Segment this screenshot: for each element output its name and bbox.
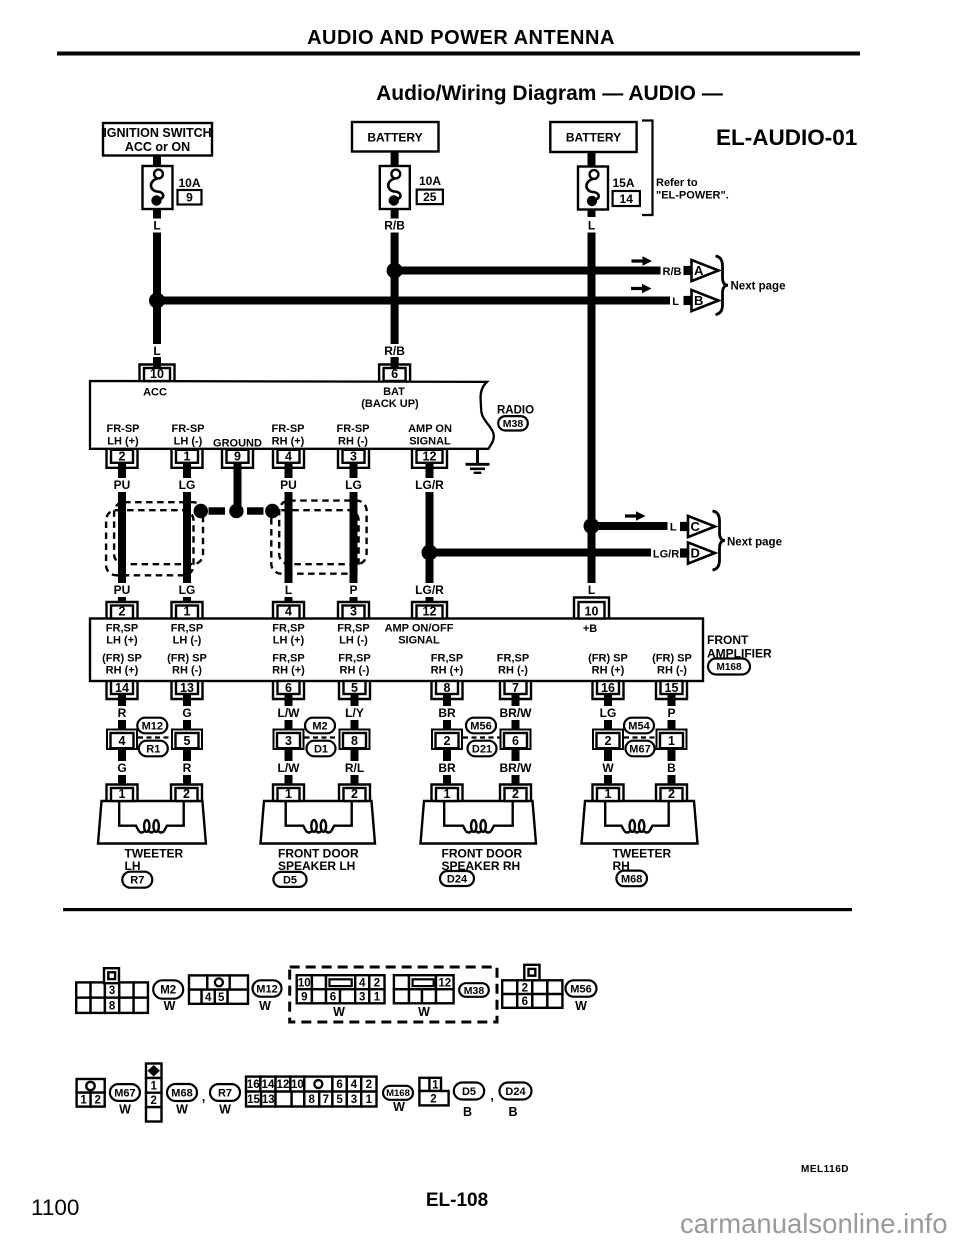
svg-text:SIGNAL: SIGNAL [409,435,451,447]
svg-text:15: 15 [665,681,679,695]
svg-text:LG/R: LG/R [415,478,444,492]
svg-text:B: B [463,1105,472,1119]
svg-text:PU: PU [114,583,131,597]
svg-text:M67: M67 [629,743,650,755]
svg-text:(BACK UP): (BACK UP) [361,398,419,410]
svg-text:R/B: R/B [384,219,405,233]
svg-text:8: 8 [309,1094,316,1106]
svg-text:D1: D1 [314,743,328,755]
svg-text:4: 4 [351,1079,358,1091]
svg-text:8: 8 [444,681,451,695]
svg-text:1: 1 [151,1080,158,1092]
svg-text:1: 1 [444,787,451,801]
svg-text:14: 14 [115,681,129,695]
svg-text:4: 4 [285,604,292,618]
svg-text:G: G [117,761,126,775]
svg-text:1: 1 [668,734,675,748]
svg-text:LG: LG [179,583,196,597]
svg-text:6: 6 [285,681,292,695]
svg-text:W: W [602,761,614,775]
svg-text:RH (+): RH (+) [592,665,625,677]
svg-text:LH (-): LH (-) [339,635,368,647]
svg-text:FRONT: FRONT [707,633,749,647]
svg-text:R: R [183,761,192,775]
svg-text:B: B [694,293,703,308]
svg-text:W: W [219,1103,231,1117]
svg-text:,: , [490,1088,494,1103]
svg-text:13: 13 [262,1094,275,1106]
svg-text:L: L [153,219,160,233]
svg-text:12: 12 [438,977,451,989]
svg-text:5: 5 [218,992,225,1004]
svg-text:G: G [182,706,191,720]
svg-text:2: 2 [151,1095,157,1107]
svg-text:4: 4 [119,734,126,748]
svg-text:BR: BR [438,761,456,775]
svg-text:FR,SP: FR,SP [272,653,304,665]
svg-text:15: 15 [247,1094,260,1106]
svg-text:M38: M38 [503,418,524,430]
svg-text:2: 2 [94,1095,100,1107]
svg-text:R/B: R/B [663,266,682,278]
svg-text:carmanualsonline.info: carmanualsonline.info [680,1208,948,1239]
svg-text:RH (-): RH (-) [657,665,687,677]
svg-text:A: A [694,263,704,278]
svg-text:PU: PU [114,478,131,492]
svg-text:1: 1 [285,787,292,801]
svg-text:2: 2 [668,787,675,801]
svg-text:BATTERY: BATTERY [566,131,621,145]
svg-text:2: 2 [119,604,126,618]
svg-text:W: W [119,1103,131,1117]
svg-text:14: 14 [620,192,634,206]
svg-text:L: L [672,296,679,308]
svg-text:6: 6 [391,367,398,381]
svg-text:M38: M38 [464,985,485,997]
svg-text:5: 5 [351,681,358,695]
svg-text:2: 2 [430,1094,436,1106]
svg-text:D21: D21 [472,743,492,755]
svg-text:AMP ON: AMP ON [408,423,452,435]
svg-text:16: 16 [601,681,615,695]
svg-text:D24: D24 [505,1086,526,1098]
svg-text:8: 8 [109,1000,116,1012]
svg-text:Audio/Wiring Diagram — AUDIO —: Audio/Wiring Diagram — AUDIO — [376,82,723,105]
svg-text:10: 10 [291,1079,304,1091]
svg-text:L/W: L/W [278,761,301,775]
svg-text:W: W [393,1100,405,1114]
svg-text:2: 2 [351,787,358,801]
svg-text:2: 2 [522,982,528,994]
svg-text:M2: M2 [312,720,327,732]
svg-text:10A: 10A [419,174,441,188]
svg-text:LG: LG [179,478,196,492]
svg-text:PU: PU [280,478,297,492]
svg-text:B: B [667,761,676,775]
svg-text:6: 6 [522,996,528,1008]
svg-text:AUDIO AND POWER ANTENNA: AUDIO AND POWER ANTENNA [307,27,615,49]
svg-text:3: 3 [350,450,357,464]
svg-text:R/L: R/L [345,761,364,775]
svg-text:M68: M68 [171,1087,192,1099]
svg-text:SIGNAL: SIGNAL [398,635,440,647]
svg-text:1: 1 [374,991,381,1003]
svg-text:RH (-): RH (-) [340,665,370,677]
svg-text:LG/R: LG/R [653,549,679,561]
svg-text:1: 1 [605,787,612,801]
svg-text:D: D [691,546,700,561]
svg-text:5: 5 [336,1094,343,1106]
svg-text:ACC: ACC [143,387,167,399]
svg-text:1: 1 [80,1095,87,1107]
svg-text:M56: M56 [570,983,591,995]
svg-text:(FR) SP: (FR) SP [652,653,692,665]
svg-text:1: 1 [119,787,126,801]
svg-text:FR,SP: FR,SP [272,623,304,635]
svg-text:+B: +B [583,623,597,635]
svg-text:BR/W: BR/W [500,706,533,720]
svg-text:1: 1 [366,1094,373,1106]
svg-text:IGNITION SWITCH: IGNITION SWITCH [103,126,211,140]
svg-text:M68: M68 [621,873,642,885]
svg-text:M12: M12 [256,983,277,995]
svg-text:D24: D24 [447,873,468,885]
svg-text:W: W [575,999,587,1013]
svg-text:Next page: Next page [727,537,782,549]
svg-text:RADIO: RADIO [497,405,534,417]
svg-text:BATTERY: BATTERY [367,131,422,145]
svg-text:R/B: R/B [384,344,405,358]
svg-text:25: 25 [423,190,437,204]
svg-text:10A: 10A [179,176,201,190]
svg-text:4: 4 [359,977,366,989]
svg-text:8: 8 [351,734,358,748]
svg-text:RH (+): RH (+) [431,665,464,677]
svg-text:RH (+): RH (+) [106,665,139,677]
svg-text:W: W [176,1103,188,1117]
svg-text:12: 12 [277,1079,290,1091]
svg-text:LH (+): LH (+) [107,435,139,447]
svg-text:W: W [418,1005,430,1019]
svg-text:RH (-): RH (-) [338,435,368,447]
svg-text:LH (-): LH (-) [173,635,202,647]
svg-text:Next page: Next page [731,281,786,293]
svg-text:M67: M67 [114,1087,135,1099]
svg-text:10: 10 [585,604,599,618]
svg-text:LH (-): LH (-) [174,435,203,447]
svg-text:R1: R1 [146,743,160,755]
svg-text:RH (+): RH (+) [272,435,305,447]
svg-text:LG: LG [345,478,362,492]
svg-text:P: P [667,706,675,720]
svg-text:7: 7 [323,1094,329,1106]
svg-text:FR,SP: FR,SP [497,653,529,665]
svg-text:FR,SP: FR,SP [338,653,370,665]
svg-text:FR-SP: FR-SP [172,423,205,435]
svg-text:12: 12 [423,450,437,464]
svg-text:M168: M168 [716,662,741,673]
svg-text:3: 3 [359,991,365,1003]
svg-text:R7: R7 [218,1087,232,1099]
svg-text:BR: BR [438,706,456,720]
svg-text:10: 10 [298,977,311,989]
svg-text:1: 1 [184,450,191,464]
svg-text:14: 14 [262,1079,275,1091]
svg-text:9: 9 [186,191,193,205]
svg-text:MEL116D: MEL116D [801,1164,849,1175]
svg-text:L: L [153,344,160,358]
svg-text:LG: LG [600,706,617,720]
svg-text:L: L [588,583,595,597]
svg-text:6: 6 [330,991,336,1003]
svg-text:BR/W: BR/W [500,761,533,775]
svg-text:2: 2 [366,1079,372,1091]
svg-text:R7: R7 [130,875,144,887]
svg-text:AMP ON/OFF: AMP ON/OFF [385,623,454,635]
svg-text:FR-SP: FR-SP [337,423,370,435]
svg-text:FR,SP: FR,SP [337,623,369,635]
svg-text:RH (-): RH (-) [172,665,202,677]
svg-text:4: 4 [205,992,212,1004]
svg-text:3: 3 [351,1094,357,1106]
svg-text:L/Y: L/Y [345,706,364,720]
svg-text:4: 4 [285,450,292,464]
svg-text:W: W [259,999,271,1013]
svg-text:(FR) SP: (FR) SP [102,653,142,665]
svg-text:M2: M2 [160,985,176,997]
svg-text:GROUND: GROUND [213,438,262,450]
svg-text:10: 10 [150,367,164,381]
svg-text:RH (+): RH (+) [272,665,305,677]
svg-text:R: R [118,706,127,720]
svg-text:1100: 1100 [31,1195,79,1220]
svg-text:1: 1 [184,604,191,618]
svg-text:16: 16 [247,1079,260,1091]
svg-text:M168: M168 [386,1088,410,1099]
svg-text:(FR) SP: (FR) SP [167,653,207,665]
svg-text:SPEAKER LH: SPEAKER LH [278,859,355,873]
svg-text:C: C [691,519,701,534]
svg-text:,: , [202,1089,206,1104]
svg-text:(FR) SP: (FR) SP [588,653,628,665]
svg-text:6: 6 [336,1079,342,1091]
svg-text:B: B [508,1105,517,1119]
svg-text:12: 12 [423,604,437,618]
svg-text:L: L [588,219,595,233]
svg-text:LH (+): LH (+) [273,635,305,647]
svg-text:2: 2 [512,787,519,801]
svg-text:FR,SP: FR,SP [431,653,463,665]
svg-text:5: 5 [184,734,191,748]
svg-text:L: L [285,583,292,597]
svg-text:9: 9 [301,991,307,1003]
svg-text:W: W [333,1005,345,1019]
svg-text:2: 2 [374,977,380,989]
svg-text:3: 3 [350,604,357,618]
svg-text:D5: D5 [283,874,297,886]
svg-text:LG/R: LG/R [415,583,444,597]
svg-text:13: 13 [180,681,194,695]
svg-text:D5: D5 [462,1086,476,1098]
svg-text:RH (-): RH (-) [498,665,528,677]
svg-text:P: P [349,583,357,597]
svg-text:FR,SP: FR,SP [171,623,203,635]
svg-text:LH (+): LH (+) [106,635,138,647]
svg-text:Refer to: Refer to [656,177,698,189]
svg-text:2: 2 [119,450,126,464]
svg-text:FR,SP: FR,SP [106,623,138,635]
svg-text:L/W: L/W [278,706,301,720]
svg-text:2: 2 [605,734,612,748]
svg-text:EL-AUDIO-01: EL-AUDIO-01 [716,125,857,150]
svg-text:2: 2 [444,734,451,748]
svg-text:ACC or ON: ACC or ON [125,140,190,154]
svg-text:2: 2 [183,787,190,801]
svg-text:M56: M56 [470,720,491,732]
svg-text:15A: 15A [613,176,635,190]
svg-text:W: W [164,999,176,1013]
svg-text:EL-108: EL-108 [426,1190,488,1211]
svg-text:6: 6 [512,734,519,748]
svg-text:3: 3 [285,734,292,748]
svg-text:3: 3 [109,985,115,997]
svg-text:FR-SP: FR-SP [107,423,140,435]
svg-text:FR-SP: FR-SP [272,423,305,435]
svg-text:9: 9 [234,450,241,464]
svg-text:BAT: BAT [383,386,405,398]
svg-text:1: 1 [432,1079,439,1091]
svg-text:L: L [670,522,677,534]
svg-text:"EL-POWER".: "EL-POWER". [656,190,729,202]
svg-text:7: 7 [512,681,519,695]
svg-text:M12: M12 [142,720,163,732]
svg-text:M54: M54 [628,720,650,732]
